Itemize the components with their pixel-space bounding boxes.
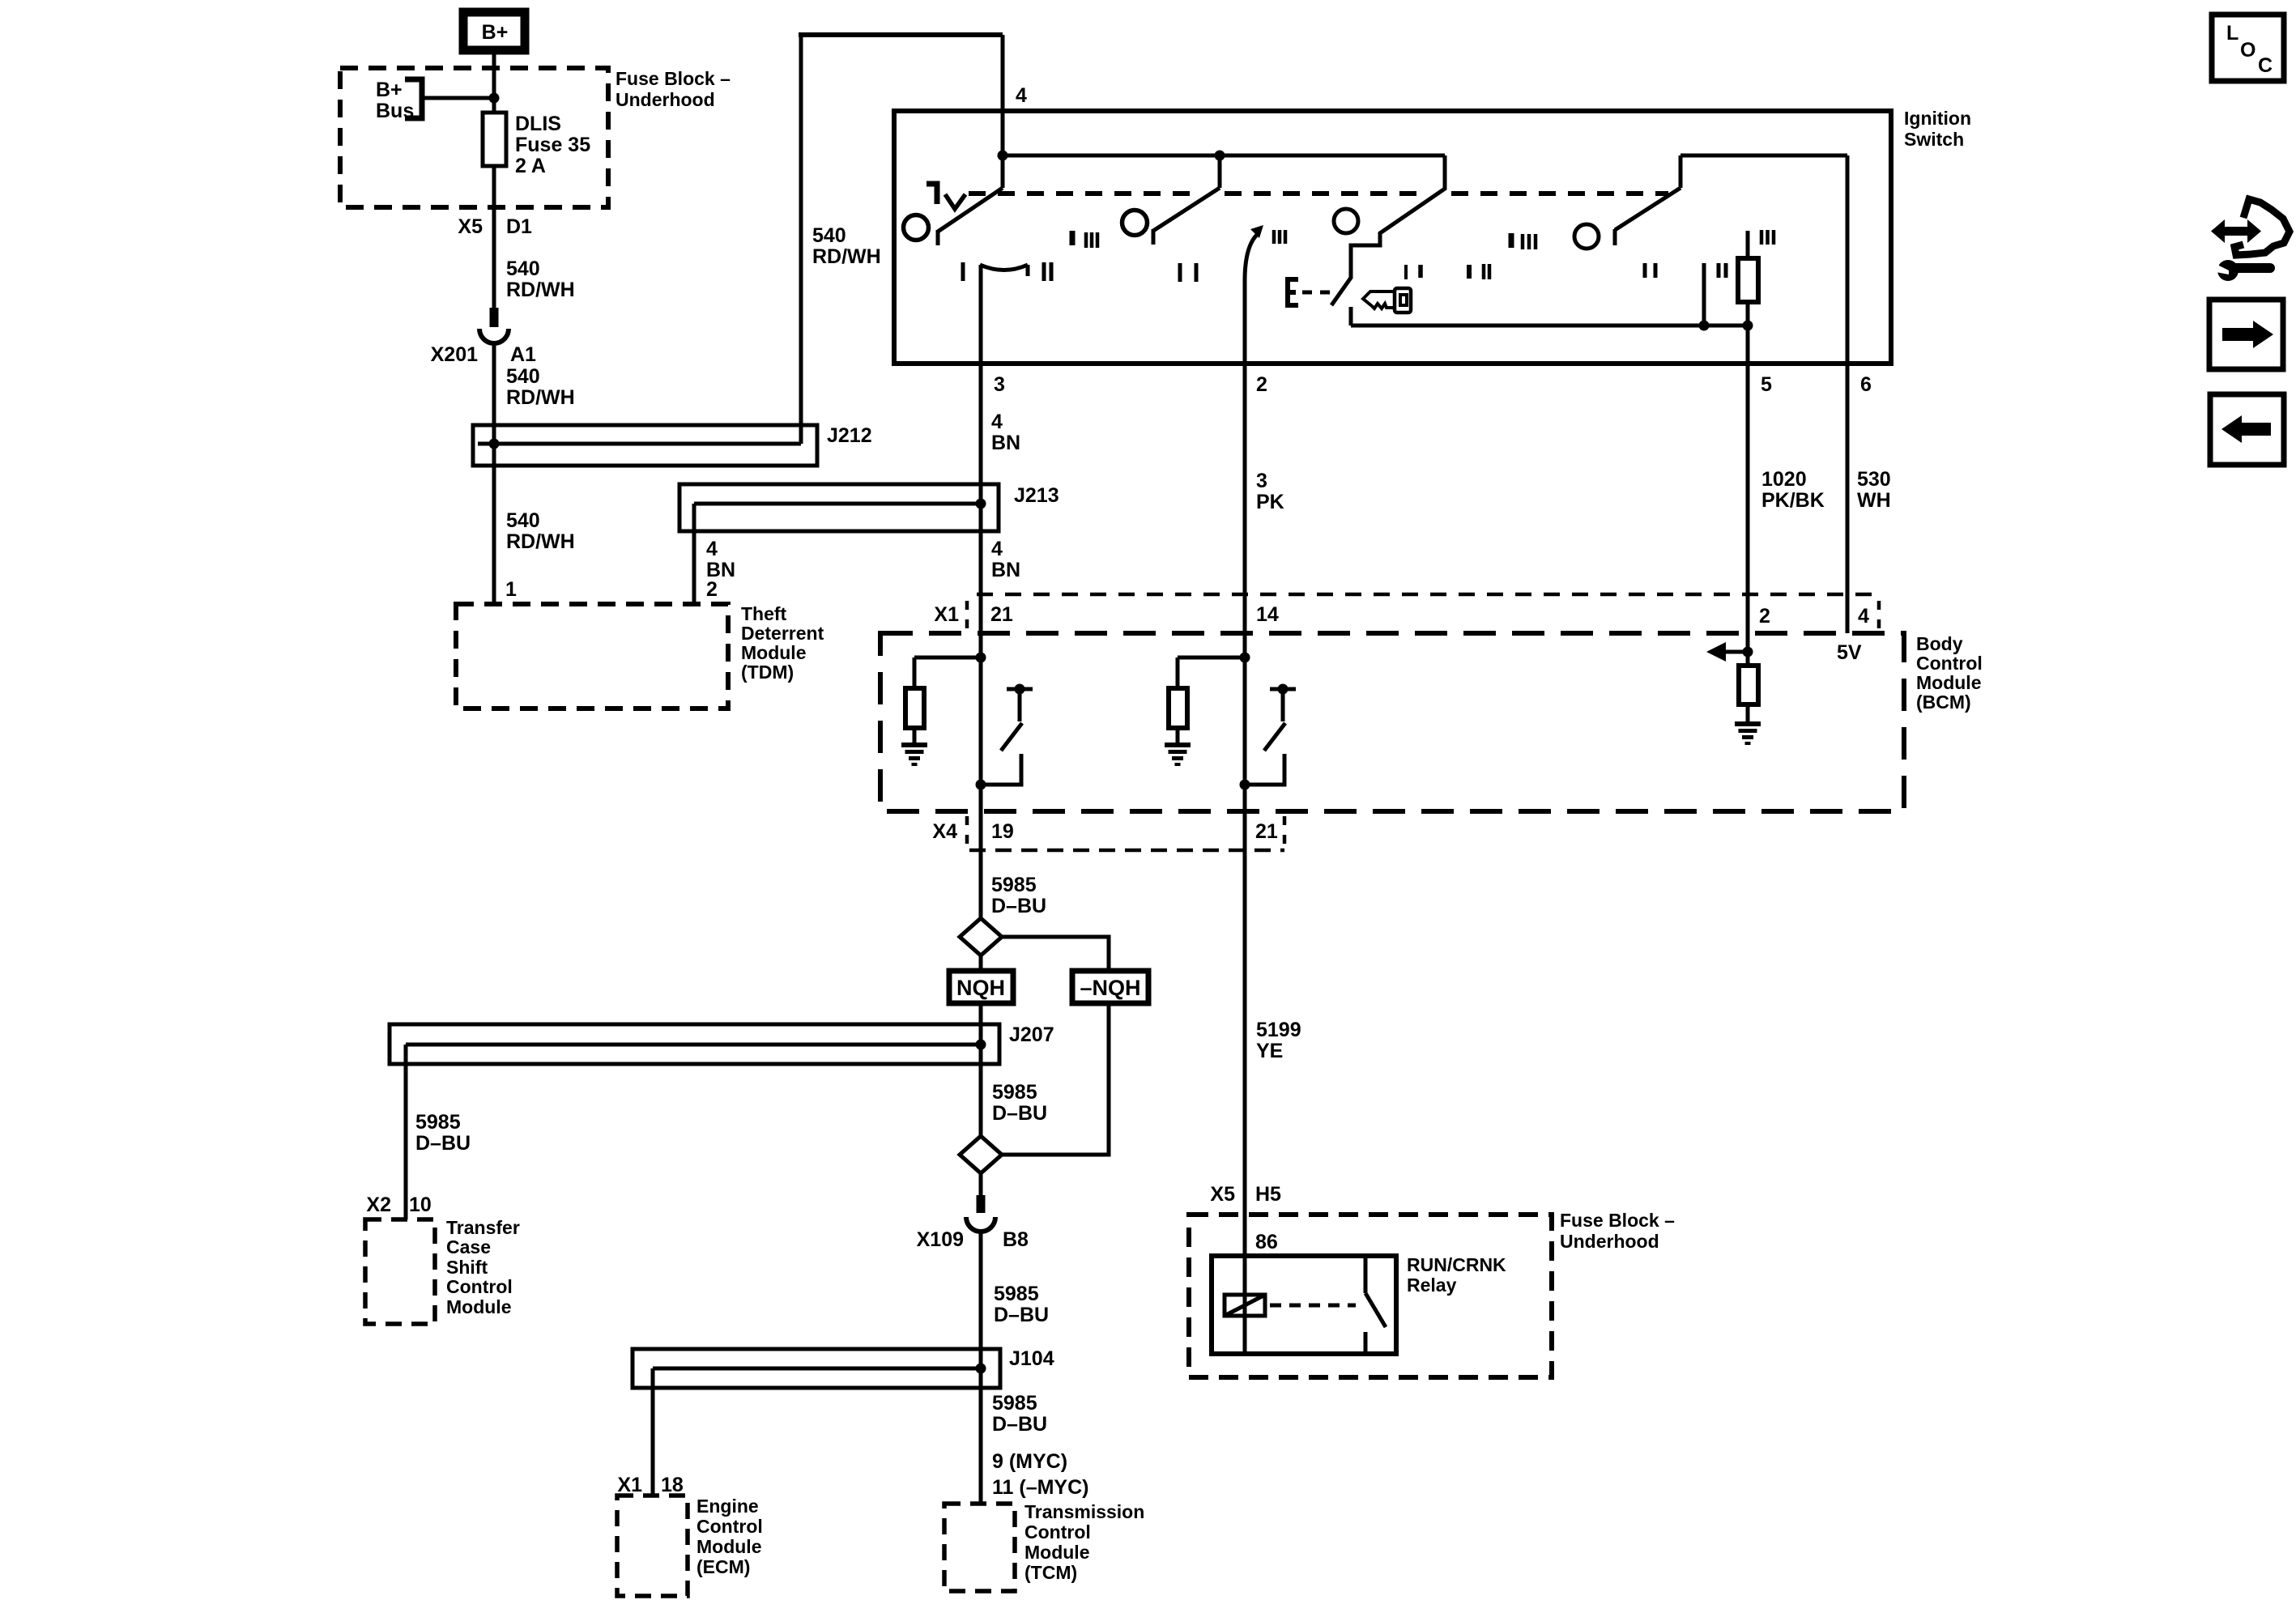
svg-text:J207: J207 <box>1009 1023 1054 1046</box>
wire diamond to NQH <box>979 955 983 971</box>
svg-text:2: 2 <box>706 578 718 601</box>
wire BCM X4-21 down to relay coil <box>1243 850 1247 1354</box>
section2 ticks <box>1272 230 1276 244</box>
svg-text:Module: Module <box>446 1296 512 1317</box>
junction key output a <box>1699 321 1710 331</box>
Theft Deterrent Module (TDM) dashed box <box>456 604 728 709</box>
inner common line segment A <box>1003 154 1445 158</box>
svg-text:Ignition: Ignition <box>1904 108 1971 129</box>
splice pack J212 <box>473 425 817 466</box>
svg-text:D–BU: D–BU <box>991 895 1046 917</box>
svg-text:4: 4 <box>1016 84 1027 107</box>
svg-text:J104: J104 <box>1009 1347 1054 1370</box>
svg-text:Fuse Block –: Fuse Block – <box>1560 1210 1675 1231</box>
wire B+ to fuse <box>492 53 496 113</box>
right arrow icon box <box>2209 300 2283 369</box>
svg-text:5V: 5V <box>1837 641 1862 664</box>
splice diamond upper <box>960 918 1002 955</box>
section4 contact circle <box>1574 224 1599 249</box>
svg-text:B8: B8 <box>1003 1228 1029 1251</box>
svg-text:RD/WH: RD/WH <box>812 245 881 268</box>
junction section2 common <box>1215 151 1225 161</box>
Fuse Block - Underhood dashed box <box>340 68 608 207</box>
junction BCM input 21 <box>976 653 986 663</box>
section4 blade <box>1679 155 1683 188</box>
svg-text:RUN/CRNK: RUN/CRNK <box>1407 1254 1506 1275</box>
svg-text:Bus: Bus <box>376 100 414 122</box>
wire diamond to X109 <box>979 1173 983 1197</box>
svg-text:J212: J212 <box>827 424 872 447</box>
svg-text:D–BU: D–BU <box>992 1102 1047 1125</box>
ground BCM right <box>1735 721 1761 726</box>
wire ignition pin6 down to BCM pin4 <box>1846 155 1850 633</box>
svg-text:Control: Control <box>1916 653 1983 674</box>
svg-text:L: L <box>2226 22 2238 45</box>
svg-text:530: 530 <box>1857 468 1891 491</box>
section1 blade <box>1001 155 1005 188</box>
svg-text:4: 4 <box>706 538 718 560</box>
svg-text:Shift: Shift <box>446 1257 488 1278</box>
wire ignition pin3 down to BCM pin19 <box>979 265 983 918</box>
svg-text:Body: Body <box>1916 633 1963 654</box>
svg-text:Module: Module <box>696 1536 762 1557</box>
BCM switch middle <box>1270 687 1296 691</box>
svg-text:10: 10 <box>409 1194 432 1216</box>
junction in J207 <box>976 1040 986 1050</box>
svg-text:X201: X201 <box>431 343 478 366</box>
svg-text:5: 5 <box>1761 373 1772 396</box>
ignition internal resistor <box>1746 231 1750 258</box>
svg-text:X5: X5 <box>1210 1183 1235 1206</box>
svg-text:(BCM): (BCM) <box>1916 691 1971 713</box>
svg-text:5985: 5985 <box>992 1392 1037 1415</box>
svg-text:RD/WH: RD/WH <box>506 386 575 409</box>
inner dashed gang line <box>969 191 1197 196</box>
section4 ticks <box>1643 263 1647 278</box>
relay coil <box>1225 1295 1265 1316</box>
svg-text:5985: 5985 <box>992 1081 1037 1104</box>
svg-text:Fuse Block –: Fuse Block – <box>616 68 731 89</box>
svg-text:5985: 5985 <box>994 1283 1039 1305</box>
BCM switch left <box>1007 687 1033 691</box>
svg-text:DLIS: DLIS <box>515 113 561 135</box>
wire J212 to ignition switch pin 4 <box>799 35 803 444</box>
svg-text:B+: B+ <box>482 21 509 44</box>
B+ Bus tap bracket <box>405 79 422 118</box>
svg-text:PK: PK <box>1256 491 1284 513</box>
svg-text:19: 19 <box>991 820 1014 843</box>
junction BCM output 21 <box>1240 780 1250 790</box>
svg-text:540: 540 <box>812 224 846 247</box>
connector row X4 <box>969 849 1284 853</box>
svg-text:X5: X5 <box>458 215 483 238</box>
svg-text:BN: BN <box>706 559 735 581</box>
svg-text:Module: Module <box>1916 672 1982 693</box>
Fuse Block - Underhood dashed box lower <box>1189 1215 1552 1377</box>
section4 stub contact <box>1702 263 1706 326</box>
wire -NQH down <box>1002 1003 1109 1155</box>
section3 fixed contact to output <box>1349 307 1353 326</box>
relay switch <box>1364 1256 1368 1293</box>
Transfer Case Shift Control Module dashed box <box>365 1219 435 1324</box>
wire X201 to TDM through J212 <box>492 343 496 604</box>
svg-text:Engine: Engine <box>696 1496 759 1517</box>
svg-text:540: 540 <box>506 365 540 388</box>
svg-text:Module: Module <box>1024 1542 1090 1563</box>
BCM input 2 arrow and resistor <box>1743 647 1753 657</box>
junction in J104 <box>976 1364 986 1374</box>
junction key output b <box>1743 321 1753 331</box>
svg-text:2: 2 <box>1256 373 1267 396</box>
LOC icon box <box>2212 15 2284 81</box>
svg-text:(TDM): (TDM) <box>741 662 794 683</box>
svg-text:B+: B+ <box>376 79 403 101</box>
connector -NQH <box>1072 971 1148 1003</box>
svg-text:YE: YE <box>1256 1040 1283 1062</box>
section1 position ticks upper <box>1070 231 1076 245</box>
RUN/CRNK relay box <box>1212 1256 1396 1354</box>
svg-text:14: 14 <box>1256 603 1279 626</box>
section3 contact circle <box>1334 209 1358 233</box>
svg-text:C: C <box>2258 54 2273 77</box>
svg-text:21: 21 <box>1255 820 1278 843</box>
svg-text:X1: X1 <box>934 603 959 626</box>
connector X109 B8 <box>977 1195 986 1213</box>
svg-text:RD/WH: RD/WH <box>506 279 575 301</box>
wire J104 to ECM <box>651 1368 655 1496</box>
section3 ticks <box>1509 233 1514 248</box>
splice pack J213 <box>679 484 999 531</box>
svg-text:Switch: Switch <box>1904 129 1964 150</box>
svg-text:6: 6 <box>1860 373 1872 396</box>
accessory symbol <box>926 184 937 204</box>
svg-text:Control: Control <box>1024 1521 1091 1543</box>
svg-text:540: 540 <box>506 257 540 280</box>
svg-text:D1: D1 <box>506 215 532 238</box>
svg-text:11 (–MYC): 11 (–MYC) <box>992 1476 1088 1499</box>
svg-text:WH: WH <box>1857 489 1891 512</box>
svg-text:Case: Case <box>446 1236 491 1257</box>
svg-text:A1: A1 <box>510 343 536 366</box>
junction at fuse input <box>489 93 500 104</box>
BCM input 21 pull resistor <box>914 656 981 660</box>
wire J213 to TDM pin 2 <box>692 504 696 604</box>
svg-text:Module: Module <box>741 642 807 663</box>
svg-text:Relay: Relay <box>1407 1274 1457 1296</box>
svg-text:Theft: Theft <box>741 603 787 624</box>
splice pack J104 <box>633 1349 1000 1388</box>
fuse DLIS Fuse 35 2A <box>483 113 506 166</box>
relay mech dashes <box>1270 1304 1356 1308</box>
svg-text:X1: X1 <box>617 1474 642 1496</box>
svg-text:5985: 5985 <box>991 874 1037 896</box>
key symbol <box>1363 291 1395 309</box>
svg-text:2 A: 2 A <box>515 155 546 177</box>
splice pack J207 <box>390 1024 999 1064</box>
harness icon outline <box>2234 199 2290 255</box>
battery feed B+ box <box>463 12 525 50</box>
branch to -NQH <box>1002 937 1109 971</box>
wire fuse to X201 <box>492 166 496 308</box>
junction BCM input 14 <box>1240 653 1250 663</box>
svg-text:D–BU: D–BU <box>415 1132 471 1155</box>
svg-text:Underhood: Underhood <box>1560 1231 1659 1252</box>
splice diamond lower <box>960 1136 1002 1173</box>
ground BCM left <box>901 743 927 747</box>
svg-text:BN: BN <box>991 559 1020 581</box>
junction in J213 <box>976 499 986 509</box>
svg-text:–NQH: –NQH <box>1080 976 1140 1000</box>
wire B+ Bus to main <box>422 96 494 100</box>
svg-text:NQH: NQH <box>956 976 1005 1000</box>
svg-text:1020: 1020 <box>1761 468 1807 491</box>
junction BCM output 19 <box>976 780 986 790</box>
wrench icon <box>2217 260 2238 281</box>
Transmission Control Module dashed box <box>944 1504 1015 1591</box>
BCM input 14 pull resistor <box>1178 656 1245 660</box>
svg-text:Transmission: Transmission <box>1024 1501 1144 1522</box>
section3 key switch path <box>1331 155 1445 305</box>
svg-text:540: 540 <box>506 509 540 532</box>
wire J207 to transfer case module <box>404 1045 408 1219</box>
svg-text:21: 21 <box>990 603 1013 626</box>
svg-text:18: 18 <box>661 1474 684 1496</box>
Engine Control Module dashed box <box>617 1496 688 1596</box>
inner common line segment B to pin 6 <box>1680 154 1847 158</box>
svg-text:5199: 5199 <box>1256 1019 1301 1041</box>
svg-text:4: 4 <box>991 411 1003 433</box>
svg-text:Deterrent: Deterrent <box>741 623 824 644</box>
section2 contact circle <box>1122 211 1148 236</box>
svg-text:D–BU: D–BU <box>994 1304 1049 1326</box>
svg-text:(TCM): (TCM) <box>1024 1562 1077 1583</box>
svg-text:O: O <box>2240 39 2256 62</box>
svg-text:4: 4 <box>991 538 1003 560</box>
wire NQH to J207 <box>979 1003 983 1136</box>
svg-text:Transfer: Transfer <box>446 1217 520 1238</box>
junction pin4 common <box>998 151 1008 161</box>
svg-text:3: 3 <box>994 373 1005 396</box>
svg-text:D–BU: D–BU <box>992 1413 1047 1436</box>
section2 blade <box>1218 155 1222 188</box>
svg-text:X109: X109 <box>917 1228 964 1251</box>
wire X109 to TCM through J104 <box>979 1232 983 1504</box>
ground BCM middle <box>1165 743 1191 747</box>
svg-text:BN: BN <box>991 432 1020 454</box>
svg-text:Control: Control <box>696 1516 763 1537</box>
svg-text:RD/WH: RD/WH <box>506 530 575 553</box>
Body Control Module dashed box <box>880 633 1904 811</box>
svg-text:86: 86 <box>1255 1231 1278 1253</box>
svg-text:H5: H5 <box>1255 1183 1281 1206</box>
svg-text:9 (MYC): 9 (MYC) <box>992 1450 1067 1473</box>
svg-text:(ECM): (ECM) <box>696 1556 750 1577</box>
E mechanical label <box>1288 279 1298 305</box>
ignition switch box <box>894 111 1891 364</box>
svg-text:3: 3 <box>1256 470 1267 492</box>
svg-text:Control: Control <box>446 1276 513 1297</box>
svg-text:5985: 5985 <box>415 1111 461 1134</box>
svg-text:X2: X2 <box>366 1194 391 1216</box>
svg-text:PK/BK: PK/BK <box>1761 489 1825 512</box>
svg-text:Underhood: Underhood <box>616 89 715 110</box>
section1 contact circle <box>904 215 929 240</box>
connector NQH <box>949 971 1013 1003</box>
wire ignition pin5 down to BCM pin2 <box>1746 326 1750 652</box>
junction in J212 <box>489 439 500 449</box>
connector X201 A1 <box>490 308 499 327</box>
svg-text:Fuse 35: Fuse 35 <box>515 134 590 156</box>
svg-text:2: 2 <box>1759 605 1770 628</box>
wire ignition pin2 down to BCM pin14 <box>1243 279 1247 850</box>
svg-text:1: 1 <box>505 578 517 601</box>
double arrow <box>2220 227 2252 236</box>
left arrow icon box <box>2210 394 2284 465</box>
section2 wiper arc with arrow <box>1245 234 1258 281</box>
svg-text:X4: X4 <box>932 820 957 843</box>
section1 lower ticks and arc <box>961 262 965 281</box>
svg-text:4: 4 <box>1858 605 1869 628</box>
connector row X1 <box>977 593 1879 597</box>
svg-text:J213: J213 <box>1014 484 1059 507</box>
